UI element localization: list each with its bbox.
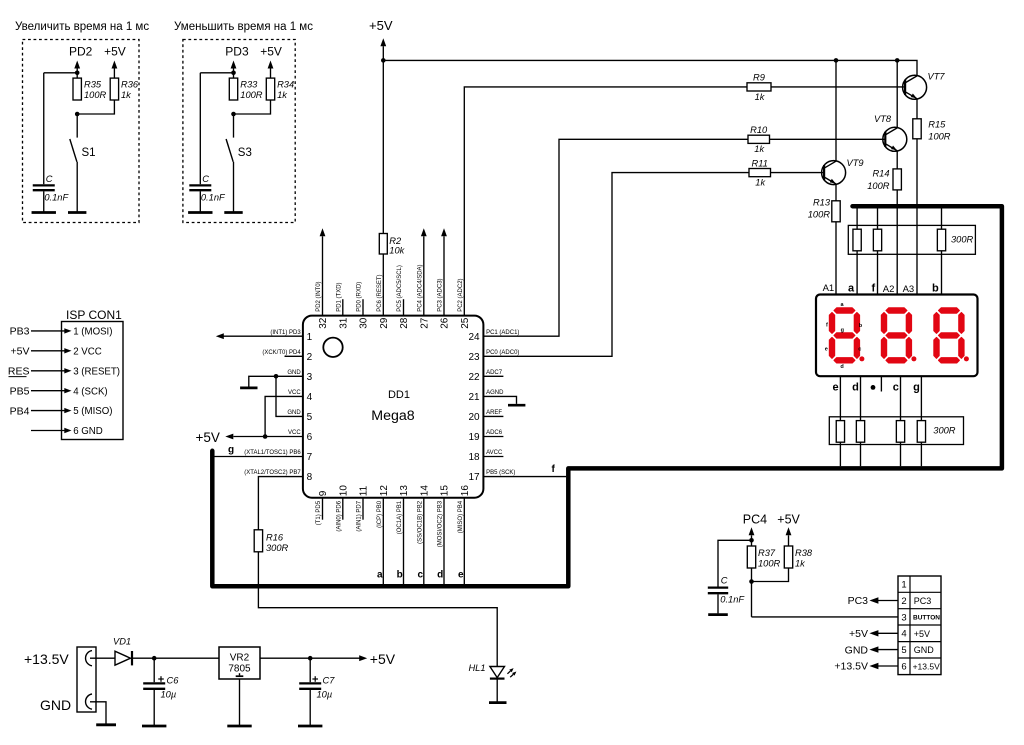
- capacitor C 0.1nF: [708, 588, 728, 594]
- label seg g: [841, 328, 844, 334]
- wire: [270, 68, 272, 78]
- svg-text:PC5 (ADC5/SCL): PC5 (ADC5/SCL): [397, 265, 403, 312]
- capacitor C 0.1nF: [33, 185, 55, 190]
- pin 3 3 (RESET): [73, 366, 120, 377]
- wire: [718, 540, 752, 586]
- pin 3 GND: [287, 370, 312, 383]
- power +5V: [369, 18, 393, 46]
- svg-text:C: C: [46, 174, 53, 184]
- svg-text:21: 21: [468, 392, 480, 403]
- svg-text:14: 14: [419, 485, 430, 497]
- wire: [941, 251, 943, 295]
- wire: [869, 597, 898, 603]
- label S3: [238, 147, 252, 159]
- wire: [31, 388, 72, 393]
- svg-text:C6: C6: [167, 676, 180, 686]
- net label PB4: [10, 405, 30, 417]
- wire segment e: [463, 498, 465, 585]
- junction: [381, 58, 386, 63]
- svg-text:7: 7: [307, 452, 313, 463]
- label R34 1k: [277, 80, 294, 100]
- svg-text:ISP CON1: ISP CON1: [66, 308, 122, 322]
- pin 11 (AIN1) PD7: [357, 485, 370, 531]
- resistor R2: [379, 234, 387, 255]
- svg-text:(ICP) PB0: (ICP) PB0: [377, 500, 383, 528]
- wire: [869, 630, 898, 636]
- svg-text:+5V: +5V: [370, 651, 396, 667]
- svg-text:GND: GND: [287, 410, 301, 416]
- svg-text:DD1: DD1: [388, 389, 410, 401]
- wire +5V rail: [383, 60, 917, 75]
- resistor R10: [748, 135, 770, 143]
- svg-text:0.1nF: 0.1nF: [720, 595, 745, 605]
- label Mega8: [371, 408, 414, 424]
- net label PC3: [848, 595, 869, 607]
- wire: [76, 114, 78, 138]
- connector CON1 body: [62, 322, 124, 440]
- pin 1: [901, 580, 906, 591]
- svg-text:29: 29: [379, 317, 390, 329]
- power +5V: [196, 430, 234, 445]
- wire: [751, 568, 753, 617]
- svg-text:100R: 100R: [867, 181, 890, 191]
- power +5V: [104, 45, 126, 69]
- label R33 100R: [240, 80, 263, 100]
- label 300R: [933, 426, 956, 436]
- svg-text:R15: R15: [928, 119, 946, 129]
- svg-text:b: b: [397, 570, 403, 581]
- wire: [44, 68, 77, 184]
- wire: [153, 658, 155, 726]
- wire: [234, 100, 271, 114]
- resistor R16: [254, 530, 262, 552]
- svg-text:GND: GND: [287, 370, 301, 376]
- svg-text:100R: 100R: [808, 210, 831, 220]
- net label PD2: [69, 45, 93, 69]
- label A1: [823, 283, 835, 294]
- pin label BUTTON: [913, 614, 940, 621]
- wire: [443, 236, 445, 315]
- svg-text:d: d: [437, 570, 443, 581]
- wire: [199, 191, 201, 212]
- wire: [382, 60, 384, 233]
- wire: [856, 208, 858, 229]
- svg-text:(MOSI/OC2) PB3: (MOSI/OC2) PB3: [438, 500, 444, 547]
- resistor 300R (a): [853, 229, 861, 251]
- svg-text:18: 18: [468, 452, 480, 463]
- svg-text:S3: S3: [238, 147, 252, 159]
- svg-text:PD2: PD2: [69, 45, 93, 59]
- wire: [483, 139, 748, 336]
- wire A3: [916, 139, 918, 295]
- wire: [896, 60, 898, 128]
- net label PB3: [10, 326, 30, 338]
- svg-text:300R: 300R: [951, 235, 974, 245]
- wire: [771, 86, 905, 88]
- label e: [832, 382, 838, 394]
- net label GND: [845, 644, 869, 656]
- svg-text:PD1 (TXD): PD1 (TXD): [336, 282, 342, 311]
- label f: [872, 283, 876, 295]
- svg-text:GND: GND: [914, 645, 935, 655]
- svg-text:PD2 (INT0): PD2 (INT0): [316, 281, 322, 311]
- net label PD3: [225, 45, 249, 69]
- label R15 100R: [928, 119, 951, 141]
- pin 16 (MISO) PB4: [458, 485, 471, 534]
- resistor R11: [749, 169, 771, 177]
- svg-text:PB5 (SCK): PB5 (SCK): [486, 470, 515, 476]
- resistor R14: [893, 169, 901, 190]
- connector BUTTON body: [898, 576, 941, 675]
- label A2: [883, 284, 895, 295]
- svg-text:1k: 1k: [795, 558, 806, 568]
- svg-text:VCC: VCC: [288, 390, 301, 396]
- svg-text:f: f: [872, 283, 876, 295]
- pin 23 PC0 (ADC0): [468, 350, 519, 363]
- label a: [848, 283, 855, 295]
- pin 12 (ICP) PB0: [377, 485, 390, 528]
- pin 13 (OC1A) PB1: [397, 485, 410, 535]
- wire: [788, 535, 790, 546]
- pin label GND: [914, 645, 935, 655]
- wire: [860, 442, 862, 466]
- svg-text:PC6 (RESET): PC6 (RESET): [377, 274, 383, 311]
- pin 26 PC3 (ADC3): [438, 278, 451, 328]
- label d: [852, 382, 859, 394]
- svg-text:VT9: VT9: [847, 158, 864, 168]
- digit 3 (8.): [934, 308, 969, 363]
- svg-text:PD3: PD3: [225, 45, 249, 59]
- svg-text:100R: 100R: [84, 90, 107, 100]
- wire: [200, 68, 233, 184]
- svg-text:g: g: [841, 328, 844, 334]
- svg-text:(XTAL1/TOSC1) PB6: (XTAL1/TOSC1) PB6: [244, 450, 301, 456]
- svg-text:AVCC: AVCC: [486, 450, 503, 456]
- svg-text:30: 30: [359, 317, 370, 329]
- svg-text:24: 24: [468, 332, 480, 343]
- svg-text:R37: R37: [758, 548, 776, 558]
- svg-text:R13: R13: [813, 197, 831, 207]
- wire: [258, 552, 497, 667]
- wire: [76, 162, 78, 213]
- svg-text:25: 25: [460, 317, 471, 329]
- pin 10 (AIN0) PD6: [336, 485, 349, 532]
- node d: [437, 570, 443, 581]
- svg-text:PB5: PB5: [10, 385, 30, 397]
- label R16 300R: [266, 533, 289, 553]
- resistor R13: [832, 201, 840, 222]
- wire segment a: [382, 498, 384, 585]
- pin 2 2 VCC: [73, 346, 102, 357]
- net label +13.5V: [834, 661, 868, 673]
- wire: [896, 151, 898, 169]
- label R11 1k: [752, 158, 768, 187]
- label g: [913, 382, 920, 394]
- svg-text:1k: 1k: [121, 90, 132, 100]
- svg-text:100R: 100R: [758, 558, 781, 568]
- label R13 100R: [808, 197, 831, 219]
- svg-text:1: 1: [307, 332, 313, 343]
- wire: [900, 376, 902, 420]
- label VT9: [847, 158, 864, 168]
- resistor R34: [266, 78, 274, 100]
- junction: [274, 374, 279, 379]
- svg-text:+13.5V: +13.5V: [24, 651, 69, 667]
- svg-text:PC4 (ADC4/SDA): PC4 (ADC4/SDA): [417, 264, 423, 311]
- svg-text:22: 22: [468, 372, 480, 383]
- label VT7: [928, 71, 946, 81]
- dashed enclosure S1 block: [23, 40, 140, 223]
- digit 2 (8.): [881, 308, 916, 363]
- ground: [227, 725, 251, 728]
- connector XP1 body: [77, 647, 96, 712]
- junction: [75, 112, 80, 117]
- title: Уменьшить время на 1 мс: [174, 21, 313, 33]
- net label RES: [8, 366, 30, 378]
- resistor R38: [784, 546, 792, 568]
- svg-text:(AIN0) PD6: (AIN0) PD6: [336, 500, 342, 531]
- svg-text:e: e: [832, 382, 838, 394]
- wire: [483, 173, 749, 357]
- ground: [298, 725, 322, 728]
- svg-text:5: 5: [307, 412, 313, 423]
- svg-text:(XTAL2/TOSC2) PB7: (XTAL2/TOSC2) PB7: [244, 470, 301, 476]
- pin label +5V: [914, 629, 930, 639]
- net label +13.5V: [24, 651, 69, 667]
- wire: [860, 376, 862, 420]
- wire pin7 g: [215, 456, 303, 458]
- svg-text:0.1nF: 0.1nF: [44, 193, 69, 203]
- svg-text:13: 13: [399, 485, 410, 497]
- svg-text:+5V: +5V: [849, 628, 868, 640]
- wire: [77, 100, 114, 114]
- wire: [751, 535, 753, 546]
- LED HL1: [490, 667, 517, 679]
- svg-text:6: 6: [307, 432, 313, 443]
- arrow: [441, 228, 447, 236]
- svg-text:7805: 7805: [228, 663, 251, 674]
- resistor 300R (d): [856, 421, 864, 443]
- wire: [483, 396, 516, 404]
- pin 19 ADC6: [468, 430, 503, 443]
- label R2 10k: [389, 236, 405, 256]
- junction: [231, 112, 236, 117]
- pin 6 VCC: [288, 430, 313, 443]
- svg-text:20: 20: [468, 412, 480, 423]
- svg-text:PD0 (RXD): PD0 (RXD): [357, 282, 363, 312]
- svg-text:C: C: [721, 576, 728, 586]
- resistor network 300R (top): [848, 225, 975, 254]
- pin 29 PC6 (RESET): [377, 274, 390, 328]
- svg-text:1k: 1k: [277, 90, 288, 100]
- svg-text:6: 6: [901, 661, 906, 672]
- node g: [228, 445, 234, 456]
- resistor 300R (b): [937, 229, 945, 251]
- svg-text:2: 2: [307, 352, 313, 363]
- label HL1: [468, 663, 485, 673]
- label C 0.1nF: [720, 576, 745, 605]
- transistor VT9: [822, 161, 846, 185]
- svg-text:17: 17: [468, 472, 480, 483]
- pin label +13.5V: [913, 662, 941, 672]
- svg-text:(SS/OC1B) PB2: (SS/OC1B) PB2: [417, 500, 423, 544]
- resistor R35: [73, 78, 81, 100]
- wire segment c: [423, 498, 425, 585]
- wire: [771, 172, 825, 174]
- label DD1: [388, 389, 410, 401]
- svg-text:a: a: [848, 283, 855, 295]
- wire: [276, 376, 303, 416]
- label seg e: [825, 346, 828, 352]
- title: Увеличить время на 1 мс: [15, 21, 149, 33]
- svg-text:1k: 1k: [754, 144, 765, 154]
- wire: [233, 436, 303, 438]
- label seg f: [826, 322, 828, 328]
- svg-text:R33: R33: [240, 80, 258, 90]
- switch S3: [226, 139, 233, 162]
- svg-text:PB3: PB3: [10, 326, 30, 338]
- resistor R15: [913, 119, 921, 139]
- svg-text:26: 26: [440, 317, 451, 329]
- pin 6: [901, 661, 906, 672]
- ground: [32, 211, 56, 214]
- pin 22 ADC7: [468, 370, 503, 383]
- ground: [240, 387, 257, 390]
- wire: [265, 396, 303, 436]
- wire: [752, 616, 899, 618]
- node c: [417, 570, 423, 581]
- label C7 10u: [317, 676, 336, 700]
- label VD1: [113, 637, 131, 647]
- pin 30 PD0 (RXD): [357, 282, 370, 329]
- label R9 1k: [753, 73, 766, 102]
- power +5V: [359, 651, 396, 667]
- svg-text:31: 31: [338, 317, 349, 329]
- junction: [231, 71, 236, 76]
- label seg c: [858, 346, 861, 352]
- wire: [752, 568, 789, 582]
- svg-text:HL1: HL1: [468, 663, 485, 673]
- arrow: [320, 228, 326, 236]
- svg-text:10k: 10k: [389, 245, 405, 255]
- pin 14 (SS/OC1B) PB2: [417, 485, 430, 544]
- svg-text:100R: 100R: [240, 90, 263, 100]
- wire segment b: [403, 498, 405, 585]
- svg-text:PC2 (ADC2): PC2 (ADC2): [458, 278, 464, 311]
- junction: [263, 434, 268, 439]
- junction: [749, 579, 754, 584]
- svg-text:Уменьшить время на 1 мс: Уменьшить время на 1 мс: [174, 21, 313, 33]
- svg-text:S1: S1: [82, 147, 96, 159]
- label A3: [903, 284, 915, 295]
- svg-text:2 VCC: 2 VCC: [73, 346, 102, 357]
- resistor network 300R (bottom): [829, 417, 963, 445]
- pin 7 (XTAL1/TOSC1) PB6: [244, 450, 312, 463]
- label R38 1k: [795, 548, 813, 569]
- pin 1 1 (MOSI): [73, 327, 112, 338]
- wire: [31, 408, 72, 413]
- net label +5V: [849, 628, 868, 640]
- pin 3: [901, 612, 906, 623]
- svg-text:(AIN1) PD7: (AIN1) PD7: [357, 500, 363, 531]
- svg-text:a: a: [377, 570, 383, 581]
- digit 1 (8.): [829, 308, 864, 363]
- svg-text:RES: RES: [8, 366, 30, 378]
- svg-text:GND: GND: [845, 644, 869, 656]
- label C 0.1nF: [44, 174, 69, 203]
- svg-text:16: 16: [460, 485, 471, 497]
- svg-text:R36: R36: [121, 80, 139, 90]
- wire: [869, 663, 898, 669]
- svg-text:R11: R11: [752, 158, 768, 168]
- ground: [508, 404, 525, 407]
- pin label PC3: [914, 596, 932, 606]
- svg-text:0.1nF: 0.1nF: [201, 193, 226, 203]
- svg-text:PC3 (ADC3): PC3 (ADC3): [438, 278, 444, 311]
- wire: [496, 679, 498, 703]
- svg-text:(T1) PD5: (T1) PD5: [316, 500, 322, 525]
- svg-text:e: e: [458, 570, 464, 581]
- svg-text:PC3: PC3: [914, 596, 932, 606]
- wire: [322, 236, 324, 315]
- svg-text:d: d: [840, 364, 843, 370]
- wire pin1 (INT1) PD3: [216, 333, 303, 339]
- node dp: [871, 385, 876, 390]
- resistor 300R (g): [917, 421, 925, 443]
- svg-text:g: g: [913, 382, 920, 394]
- resistor 300R (e): [836, 421, 844, 443]
- svg-text:3: 3: [307, 372, 313, 383]
- svg-text:VT7: VT7: [928, 71, 946, 81]
- svg-text:+5V: +5V: [196, 430, 220, 445]
- svg-text:1k: 1k: [755, 178, 766, 188]
- junction: [152, 656, 157, 661]
- svg-text:(OC1A) PB1: (OC1A) PB1: [397, 500, 403, 534]
- svg-text:27: 27: [419, 317, 430, 329]
- label R35 100R: [84, 80, 107, 100]
- svg-text:Mega8: Mega8: [371, 408, 414, 424]
- svg-text:+5V: +5V: [11, 346, 30, 358]
- pin 5 GND: [287, 410, 312, 423]
- wire: [856, 251, 858, 295]
- svg-text:PB4: PB4: [10, 405, 30, 417]
- svg-text:+13.5V: +13.5V: [913, 662, 941, 672]
- svg-text:VR2: VR2: [230, 653, 250, 664]
- svg-text:GND: GND: [40, 697, 71, 713]
- svg-text:9: 9: [318, 490, 329, 496]
- svg-text:19: 19: [468, 432, 480, 443]
- capacitor C7 10u: [299, 676, 321, 689]
- svg-text:VD1: VD1: [113, 637, 131, 647]
- svg-text:4: 4: [901, 629, 906, 640]
- svg-text:4 (SCK): 4 (SCK): [73, 386, 107, 397]
- wire: [260, 657, 360, 659]
- resistor R36: [110, 78, 118, 100]
- wire: [90, 657, 115, 659]
- pin 15 (MOSI/OC2) PB3: [438, 485, 451, 548]
- svg-text:R10: R10: [750, 125, 768, 135]
- switch S1: [70, 139, 77, 162]
- label b: [932, 283, 939, 295]
- svg-text:+13.5V: +13.5V: [834, 661, 868, 673]
- node f: [552, 464, 556, 475]
- junction: [308, 656, 313, 661]
- svg-text:C7: C7: [323, 676, 336, 686]
- pin 2 (XCK/T0) PD4: [262, 350, 312, 363]
- net label GND: [40, 697, 71, 713]
- wire: [382, 46, 384, 60]
- wire: [31, 368, 72, 373]
